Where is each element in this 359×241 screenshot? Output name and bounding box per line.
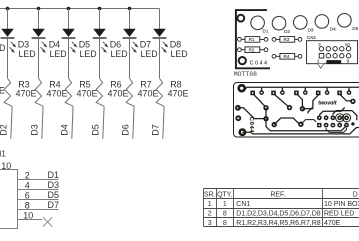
svg-text:D5: D5 [48, 190, 60, 200]
wire LED D8 to resistor R8 [159, 39, 161, 79]
svg-text:470E: 470E [108, 88, 129, 98]
svg-text:D5: D5 [352, 26, 358, 31]
node junction dot col D5 [67, 7, 71, 11]
svg-text:C044: C044 [250, 60, 269, 66]
LED D5 [62, 29, 78, 53]
wire rail to LED D6 [99, 9, 101, 30]
svg-text:CN1: CN1 [0, 150, 6, 159]
copper pad mid [287, 105, 292, 110]
resistor R3 [4, 78, 12, 106]
copper trace cluster ring 2 [342, 114, 350, 122]
svg-text:10 PIN BOX: 10 PIN BOX [324, 201, 359, 208]
svg-text:6: 6 [25, 191, 30, 201]
copper pad mid [300, 106, 305, 111]
copper pad mid [298, 122, 303, 127]
wire LED D6 to resistor R6 [99, 39, 101, 79]
svg-text:R2: R2 [249, 48, 255, 53]
copper pad mid [263, 105, 268, 110]
LED D4 [32, 29, 48, 53]
svg-text:R4: R4 [284, 54, 290, 59]
svg-text:8: 8 [25, 201, 30, 211]
svg-text:1: 1 [317, 58, 320, 63]
svg-text:D4: D4 [330, 27, 336, 32]
copper trace cluster ring 1 [336, 114, 344, 122]
LED D6 [93, 29, 109, 53]
svg-text:D5: D5 [91, 124, 101, 136]
copper trace pad301 up [301, 120, 316, 125]
resistor R4 footprint [272, 54, 302, 60]
svg-text:QTY.: QTY. [217, 192, 232, 199]
BOM table row 3 [208, 220, 341, 227]
svg-text:1: 1 [223, 201, 227, 208]
wire rail to LED D4 [38, 9, 40, 30]
svg-text:D2: D2 [284, 29, 290, 34]
copper trace pad 274 diagonal [274, 118, 299, 125]
copper trace left pad 1 to mid [238, 108, 264, 119]
svg-text:LED: LED [171, 49, 188, 59]
mounting hole top-left [237, 15, 244, 22]
copper pads pair 5 (square + round) [337, 87, 351, 95]
svg-text:R3: R3 [284, 37, 290, 42]
copper pads pair 3 (square + round) [294, 87, 308, 95]
copper trace sq2 diagonal [275, 95, 289, 107]
copper trace bottom bus lower [242, 128, 359, 134]
resistor R1 footprint [238, 37, 268, 43]
copper trace pad to H right [302, 108, 313, 110]
copper trace cluster weave top [319, 107, 345, 115]
svg-text:R1: R1 [249, 37, 255, 42]
svg-text:10: 10 [23, 211, 33, 221]
svg-text:LED: LED [141, 49, 158, 59]
copper pad mid [263, 116, 268, 121]
svg-text:9: 9 [347, 58, 350, 63]
copper trace top bus [245, 87, 359, 90]
wire LED D4 to resistor R4 [38, 39, 40, 79]
no-connect X on pin 10 [43, 217, 52, 226]
svg-text:RED LED: RED LED [324, 211, 354, 218]
svg-text:MOTT08: MOTT08 [234, 71, 257, 78]
svg-text:D4: D4 [60, 124, 70, 136]
svg-text:8: 8 [223, 211, 227, 218]
svg-text:470E: 470E [47, 88, 68, 98]
resistor R4 [35, 78, 43, 106]
svg-text:D: D [0, 43, 6, 53]
copper pads pair 1 (square + round) [250, 87, 264, 95]
resistor R3 footprint [272, 37, 302, 43]
PCB copper side board outline [234, 83, 359, 138]
copper pad left mid 1 [235, 105, 241, 111]
BOM table row 2 [208, 211, 355, 218]
copper trace cluster weave bottom 1 [326, 128, 346, 132]
node junction dot col D3 [6, 7, 10, 11]
svg-text:D1: D1 [48, 170, 60, 180]
node junction dot col D6 [98, 7, 102, 11]
copper trace sq4 to pad [308, 95, 319, 114]
wire resistor R7 to net D6 [133, 106, 134, 139]
copper pad mounting top-left [237, 84, 246, 93]
svg-text:twovolt: twovolt [318, 101, 336, 107]
svg-text:D2: D2 [0, 124, 9, 136]
copper trace sq3 diagonal [298, 95, 303, 107]
wire resistor R6 to net D5 [103, 106, 104, 139]
svg-text:D1,D2,D3,D4,D5,D6,D7,D8: D1,D2,D3,D4,D5,D6,D7,D8 [236, 211, 320, 218]
svg-text:D7: D7 [151, 124, 161, 136]
svg-text:D7: D7 [48, 200, 60, 210]
copper trace mid vertical [265, 108, 267, 119]
LED D4 footprint [315, 15, 336, 32]
LED D8 [153, 29, 169, 53]
svg-text:470E: 470E [168, 88, 189, 98]
resistor R8 [156, 78, 164, 106]
connector CN1 pin 6 [18, 191, 59, 201]
copper pads CN1 cluster [317, 115, 355, 127]
svg-text:470E: 470E [16, 88, 37, 98]
BOM table row 1 [208, 201, 359, 208]
node junction dot col D7 [128, 7, 132, 11]
LED D7 [123, 29, 139, 53]
svg-text:REF.: REF. [270, 192, 285, 199]
wire resistor R3 to net D2 [11, 106, 12, 139]
copper trace sq1 diagonal [254, 95, 265, 107]
svg-text:CN1: CN1 [307, 35, 317, 40]
svg-text:D3: D3 [30, 124, 40, 136]
resistor R7 [126, 78, 134, 106]
svg-text:D: D [353, 192, 358, 199]
svg-text:CN1: CN1 [236, 201, 250, 208]
svg-text:R1,R2,R3,R4,R5,R6,R7,R8: R1,R2,R3,R4,R5,R6,R7,R8 [236, 220, 320, 227]
wire rail to LED D7 [129, 9, 131, 30]
wire resistor R5 to net D4 [72, 106, 73, 139]
node junction dot col D4 [37, 7, 41, 11]
svg-text:LED: LED [111, 49, 128, 59]
copper trace sq5 to pad [340, 95, 351, 101]
copper pads pair 4 (square + round) [316, 87, 330, 95]
svg-text:4: 4 [25, 181, 30, 191]
BOM table grid [204, 189, 359, 227]
svg-text:470E: 470E [77, 88, 98, 98]
BOM table header [204, 192, 358, 199]
wire rail to LED D5 [68, 9, 70, 30]
svg-text:470E: 470E [324, 220, 341, 227]
wire LED D5 to resistor R5 [68, 39, 70, 79]
svg-text:470E: 470E [138, 88, 159, 98]
connector CN1 pin 2 [18, 171, 59, 181]
svg-text:D3: D3 [308, 27, 314, 32]
svg-text:D3: D3 [48, 180, 60, 190]
connector CN1 pin 8 [18, 201, 59, 211]
LED D5 footprint [338, 13, 359, 31]
copper pads pair 2 (square + round) [271, 87, 285, 95]
LED D1 footprint [251, 16, 269, 34]
svg-text:2: 2 [318, 42, 321, 47]
wire resistor R4 to net D3 [42, 106, 43, 139]
svg-text:E: E [0, 85, 5, 95]
LED D2 footprint [272, 16, 290, 34]
connector CN1 body [0, 170, 18, 229]
copper pad mid [272, 122, 277, 127]
svg-text:C044: C044 [248, 117, 254, 134]
svg-text:SR.: SR. [204, 192, 216, 199]
connector CN1 pin 4 [18, 181, 59, 191]
svg-text:LED: LED [50, 49, 67, 59]
resistor R5 [65, 78, 73, 106]
svg-text:D1: D1 [263, 29, 269, 34]
svg-text:LED: LED [80, 49, 97, 59]
connector CN1 footprint [307, 41, 358, 69]
svg-text:3: 3 [208, 220, 212, 227]
wire LED D7 to resistor R7 [129, 39, 131, 79]
svg-text:8: 8 [223, 220, 227, 227]
LED D3 footprint [294, 16, 314, 33]
svg-text:LED: LED [19, 49, 36, 59]
wire top supply rail [0, 8, 160, 10]
resistor R2 footprint [238, 47, 268, 53]
svg-text:10: 10 [345, 42, 351, 47]
copper pad left mid 2 [235, 115, 241, 121]
copper pad mid [350, 99, 355, 104]
wire rail to LED D8 [159, 9, 161, 30]
PCB board outline corner (component side) [236, 10, 270, 68]
wire resistor R8 to net D7 [163, 106, 164, 139]
connector CN1 pin 10 [18, 211, 43, 221]
wire rail to LED D3 [7, 9, 9, 30]
svg-text:2: 2 [25, 171, 30, 181]
LED D3 [1, 29, 17, 53]
mounting hole bottom-left [239, 57, 246, 64]
wire LED D3 to resistor R3 [7, 39, 9, 79]
copper pad mounting bottom-left [238, 128, 246, 136]
svg-text:D6: D6 [121, 124, 131, 136]
resistor R6 [96, 78, 104, 106]
svg-text:2: 2 [208, 211, 212, 218]
copper trace bottom bus upper [266, 119, 347, 131]
svg-text:1: 1 [208, 201, 212, 208]
